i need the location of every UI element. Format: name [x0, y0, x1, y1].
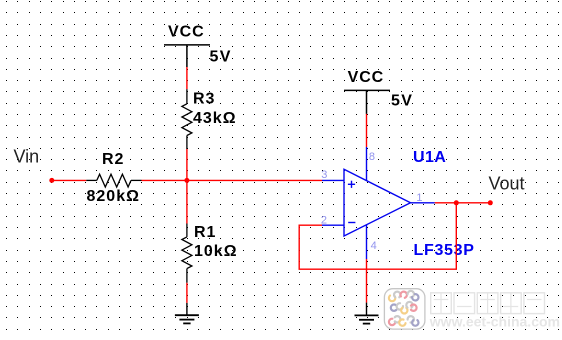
- svg-text:5V: 5V: [210, 48, 232, 65]
- wire U1A output to Vout: [435, 202, 491, 204]
- power VCC2: [344, 90, 390, 114]
- watermark text: [431, 293, 545, 314]
- svg-text:U1A: U1A: [413, 149, 446, 166]
- svg-text:VCC: VCC: [168, 24, 204, 41]
- power VCC1: [164, 45, 210, 67]
- feedback wire output to U1A pin 2: [299, 203, 456, 269]
- svg-text:3: 3: [321, 169, 327, 181]
- input terminal Vin: [49, 178, 54, 183]
- wire R1 to GND1: [186, 283, 188, 303]
- ground GND1: [175, 303, 199, 324]
- op-amp U1A: [322, 147, 435, 259]
- svg-text:R2: R2: [102, 151, 124, 168]
- ground GND2: [355, 303, 379, 324]
- wire R3 to node A: [186, 149, 188, 180]
- wire R2 to node A to U1A pin 3: [142, 179, 323, 181]
- wire VCC2 to U1A pin 8: [366, 114, 368, 147]
- resistor R1: [182, 224, 192, 283]
- resistor R3: [182, 89, 192, 149]
- svg-text:Vout: Vout: [489, 174, 525, 194]
- svg-text:Vin: Vin: [14, 147, 40, 167]
- wire node A to R1: [186, 180, 188, 223]
- wire VCC1 to R3: [186, 67, 188, 89]
- svg-text:820kΩ: 820kΩ: [87, 188, 140, 205]
- svg-text:4: 4: [371, 240, 377, 252]
- output terminal Vout: [488, 200, 493, 205]
- svg-text:LF353P: LF353P: [414, 242, 475, 259]
- svg-text:www.eet-china.com: www.eet-china.com: [429, 314, 560, 330]
- wire U1A pin 4 to GND2: [366, 259, 368, 303]
- wire Vin to R2: [52, 179, 87, 181]
- svg-text:R1: R1: [194, 224, 216, 241]
- junction output node: [454, 200, 459, 205]
- svg-text:10kΩ: 10kΩ: [194, 243, 238, 260]
- svg-text:1: 1: [416, 192, 422, 204]
- svg-text:43kΩ: 43kΩ: [193, 110, 237, 127]
- svg-text:5V: 5V: [391, 93, 413, 110]
- svg-text:VCC: VCC: [348, 69, 384, 86]
- svg-text:R3: R3: [193, 90, 215, 107]
- svg-text:8: 8: [369, 151, 375, 163]
- junction node A: [184, 178, 189, 183]
- resistor R2: [86, 174, 141, 187]
- watermark logo box: [384, 289, 425, 329]
